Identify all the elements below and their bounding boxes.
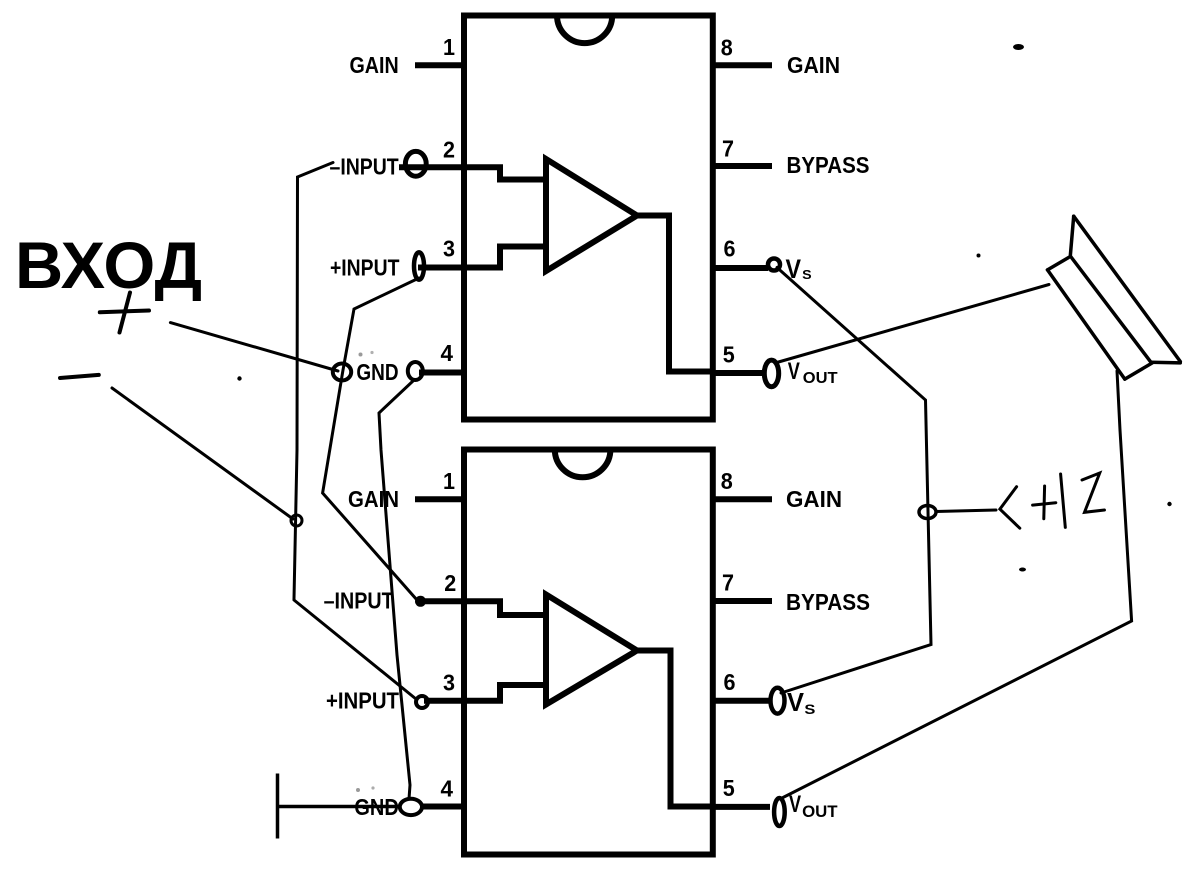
faint speck 6 bbox=[359, 353, 363, 357]
svg-text:7: 7 bbox=[722, 136, 734, 162]
ink speck 5 bbox=[1167, 502, 1171, 506]
svg-text:8: 8 bbox=[721, 35, 733, 61]
IC U1 notch bbox=[557, 16, 612, 44]
wire U1 pin2 to op-amp inverting input bbox=[464, 167, 546, 179]
wire minus terminal to left bus node bbox=[112, 388, 293, 519]
wire ground to U2 pin4 bbox=[278, 805, 401, 809]
svg-text:GAIN: GAIN bbox=[348, 486, 399, 512]
wire U1 Vout to speaker bbox=[775, 285, 1049, 364]
svg-text:BYPASS: BYPASS bbox=[787, 152, 870, 178]
node circle at U2 pin3 bbox=[416, 696, 428, 708]
U2 pin 2 stub bbox=[421, 598, 464, 604]
node ellipse at U1 pin5 Vout bbox=[764, 360, 778, 387]
wire U1 Vs to supply node to U2 Vs bbox=[777, 268, 931, 694]
IC U2 package outline bbox=[464, 450, 713, 855]
svg-text:–INPUT: –INPUT bbox=[324, 587, 395, 613]
op-amp U1 bbox=[546, 159, 637, 271]
U1 pin 7 stub bbox=[713, 163, 772, 169]
plus terminal mark bbox=[100, 293, 149, 333]
node circle at U1 pin2 bbox=[405, 151, 426, 176]
wire U1 pin4 to U2 GND bbox=[379, 381, 414, 800]
svg-text:7: 7 bbox=[722, 570, 734, 596]
faint speck 8 bbox=[356, 788, 360, 792]
wire U2 pin2 to op-amp inverting input bbox=[464, 601, 546, 615]
wire speaker to U2 Vout bbox=[783, 371, 1132, 798]
supply tap wire bbox=[936, 510, 996, 512]
supply chevron bbox=[1000, 487, 1020, 529]
svg-text:–INPUT: –INPUT bbox=[330, 153, 400, 179]
wire U2 op-amp output to pin5 bbox=[637, 651, 713, 807]
svg-text:3: 3 bbox=[443, 670, 455, 696]
ink speck 4 bbox=[1019, 568, 1026, 572]
svg-text:6: 6 bbox=[724, 236, 736, 262]
node ellipse at U2 pin6 Vs bbox=[771, 688, 785, 714]
svg-text:BYPASS: BYPASS bbox=[786, 589, 870, 615]
wire U1 pin3 to op-amp non-inverting input bbox=[464, 247, 546, 268]
wire plus terminal to U1 GND node bbox=[170, 323, 338, 371]
wire U2 pin3 to op-amp non-inverting input bbox=[464, 685, 546, 701]
faint speck 7 bbox=[370, 351, 373, 354]
svg-text:+INPUT: +INPUT bbox=[326, 688, 400, 714]
wire U1 op-amp output to pin5 bbox=[636, 216, 713, 372]
svg-text:OUT: OUT bbox=[803, 370, 838, 387]
op-amp U2 bbox=[546, 595, 637, 705]
svg-text:S: S bbox=[804, 701, 815, 717]
svg-text:GAIN: GAIN bbox=[787, 52, 840, 78]
node circle at U1 pin6 Vs bbox=[768, 259, 780, 271]
node ellipse at U1 GND label bbox=[333, 364, 351, 381]
svg-text:V: V bbox=[786, 254, 802, 284]
svg-text:2: 2 bbox=[444, 570, 456, 596]
svg-text:ВХОД: ВХОД bbox=[15, 228, 202, 302]
wire U1 +INPUT to U2 -INPUT bbox=[323, 278, 419, 600]
U1 pin 5 stub bbox=[713, 370, 765, 376]
svg-text:6: 6 bbox=[724, 669, 736, 695]
faint speck 9 bbox=[371, 786, 374, 789]
supply node ellipse bbox=[919, 506, 936, 519]
svg-text:5: 5 bbox=[723, 775, 735, 801]
+12 annotation plus bbox=[1033, 486, 1056, 519]
ink speck 2 bbox=[977, 254, 981, 258]
svg-text:2: 2 bbox=[443, 137, 455, 163]
U1 pin 8 stub bbox=[713, 62, 772, 68]
speaker LS1 bbox=[1048, 216, 1181, 379]
+12 annotation digit 1 bbox=[1061, 474, 1066, 527]
junction dot at U2 pin2 bbox=[415, 596, 426, 607]
node ellipse at U2 pin5 Vout bbox=[774, 798, 785, 826]
U1 pin 6 stub bbox=[713, 265, 768, 271]
IC U2 notch bbox=[555, 450, 611, 478]
node circle on left bus bbox=[291, 515, 302, 526]
U2 pin 6 stub bbox=[713, 698, 770, 704]
svg-text:V: V bbox=[787, 689, 804, 717]
svg-text:4: 4 bbox=[441, 776, 454, 802]
svg-text:1: 1 bbox=[443, 34, 455, 60]
svg-text:GAIN: GAIN bbox=[786, 486, 842, 512]
U1 pin 1 stub bbox=[415, 62, 464, 68]
svg-text:V: V bbox=[788, 358, 800, 385]
svg-text:3: 3 bbox=[443, 236, 455, 262]
U1 pin 4 stub bbox=[419, 370, 464, 376]
svg-text:5: 5 bbox=[723, 342, 735, 368]
wire left bus to U2 +INPUT bbox=[294, 600, 416, 699]
ink speck 1 bbox=[1013, 44, 1024, 50]
svg-text:GAIN: GAIN bbox=[350, 52, 399, 78]
svg-text:8: 8 bbox=[721, 468, 733, 494]
node circle at U1 pin4 bbox=[408, 362, 423, 380]
U1 pin 2 stub bbox=[399, 164, 464, 170]
U2 pin 1 stub bbox=[415, 496, 464, 502]
U1 pin 3 stub bbox=[418, 265, 464, 271]
U2 pin 8 stub bbox=[713, 496, 772, 502]
+12 annotation digit 2 bbox=[1082, 473, 1105, 512]
node ellipse at U2 pin4 bbox=[400, 799, 422, 815]
minus terminal mark bbox=[60, 375, 99, 378]
ground electrode bar bbox=[276, 774, 280, 839]
svg-text:S: S bbox=[802, 268, 812, 282]
IC U1 package outline bbox=[464, 16, 713, 420]
U2 pin 3 stub bbox=[424, 698, 464, 704]
U2 pin 4 stub bbox=[421, 804, 464, 810]
wire U1 -INPUT down left bus bbox=[294, 163, 333, 600]
U2 pin 7 stub bbox=[713, 598, 772, 604]
svg-text:+INPUT: +INPUT bbox=[330, 254, 400, 280]
svg-text:GND: GND bbox=[356, 359, 398, 385]
ink speck 3 bbox=[237, 376, 241, 380]
svg-text:OUT: OUT bbox=[802, 803, 838, 821]
svg-text:4: 4 bbox=[441, 340, 454, 366]
U2 pin 5 stub bbox=[713, 804, 770, 810]
node ellipse at U1 pin3 bbox=[414, 252, 424, 280]
svg-text:1: 1 bbox=[443, 468, 455, 494]
